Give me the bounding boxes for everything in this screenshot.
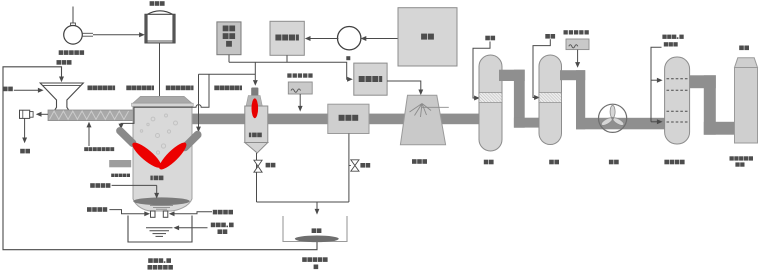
flame of torch 1 (red) xyxy=(129,139,164,171)
denitrifier column (脱硝) xyxy=(539,55,562,145)
node: chamber 1 label (1燃室) xyxy=(150,176,152,181)
valve nozzle right under chamber 1 xyxy=(163,211,168,217)
melting chamber 1 (1燃室) vessel body xyxy=(133,106,192,212)
node: plasma torch 4 label (等离子体炬4) xyxy=(214,86,219,91)
chiller 1 (冷水机1) xyxy=(270,21,304,55)
node: liquid level symbol in collection box xyxy=(146,228,173,237)
wire: power drop to torch 4 xyxy=(253,62,258,86)
melting chamber 1 lid xyxy=(132,96,194,106)
fan (风机) xyxy=(599,104,627,132)
node: feed port label (进料口) xyxy=(57,60,62,65)
node: rotating plate label (旋转炉盘) with arrow xyxy=(90,183,159,198)
temperature sensor 3 (温度传感器) xyxy=(564,30,590,49)
flame of torch 4 (red) xyxy=(252,98,259,118)
wire: sensor 3 arrow into duct xyxy=(575,50,580,68)
wire: power to torch 3 (right torch) xyxy=(196,74,201,132)
dust collection bin xyxy=(283,216,347,242)
chamber 2 shoulder xyxy=(246,96,262,107)
water tank (水箱) xyxy=(398,8,457,66)
wire: sensor 2 arrow into duct xyxy=(298,94,303,112)
chiller 2 (冷水机2) xyxy=(354,63,387,95)
plasma power supply box (等离子电源) xyxy=(217,22,241,55)
duct: denitrifier top outlet to fan xyxy=(560,70,666,129)
node: motor label (电机) with arrow xyxy=(20,118,30,153)
air compressor (空气压缩机) xyxy=(59,7,84,55)
temperature sensor mount on chamber 1 (温度传感器) xyxy=(109,160,131,177)
rotating furnace plate (dark ellipse) inside chamber 1 xyxy=(133,197,189,209)
adsorption column (吸附杂质) xyxy=(665,57,690,144)
node: bubbles inside chamber 1 xyxy=(140,114,177,154)
wire: chiller 1 down to power bus xyxy=(286,55,288,62)
node: collection box caption (玻璃液、合金液收集箱) xyxy=(148,258,173,269)
node: funnel label (漏斗) with arrow xyxy=(3,87,44,93)
plasma torch 3 (right, on chamber 1) xyxy=(185,135,198,148)
wire: chiller1 to chiller2 water line xyxy=(229,62,353,82)
duct: flue gas duct chamber1 -> chamber2 -> dust collector -> quench tower -> desulfurizer xyxy=(190,114,482,125)
valve on dust collector drop line (阀门) xyxy=(349,160,359,171)
duct: desulfurizer top outlet to denitrifier inlet xyxy=(499,70,540,128)
node: denitrifier label (脱硝) xyxy=(549,160,554,165)
wire: lime/activated-carbon feed (生石灰、活性炭等) with label xyxy=(651,35,684,125)
plasma torch 4 (on chamber 2) xyxy=(251,88,258,101)
valve under chamber 2 (阀门) xyxy=(254,160,262,172)
flame of torch 3 (red) xyxy=(156,139,190,172)
node: adsorption column label (吸附杂质) xyxy=(664,160,669,165)
gas storage tank (储气罐) xyxy=(145,1,175,43)
node: glass/alloy liquid label (玻璃液，合金液) with arrow xyxy=(173,223,233,234)
wire: chiller 2 to quench tower spray xyxy=(387,81,423,95)
wire: dust recycle loop from dust bin back to feed funnel xyxy=(3,67,317,250)
plasma torch 1 (left, on chamber 1) xyxy=(120,131,133,143)
temperature sensor 2 (温度传感器) xyxy=(287,73,312,94)
valve nozzle left under chamber 1 xyxy=(151,211,156,217)
node: clean flue gas outlet caption (排放出干净烟气) xyxy=(730,156,754,166)
wire: pump to chiller 1 arrow xyxy=(305,36,339,41)
dust collector (除尘器) xyxy=(328,104,369,133)
wire: alkali feed (碱液) with label xyxy=(473,36,495,101)
node: valve label (阀门) xyxy=(266,163,271,168)
wire: gas line from tank down to chamber 1 lid xyxy=(159,43,161,97)
node: plasma torch 1 label (等离子体炬1) xyxy=(88,86,93,91)
water pump circle xyxy=(338,27,361,50)
wire: water tank to pump arrow xyxy=(361,36,398,41)
feed funnel (漏斗) xyxy=(40,83,83,110)
motor (电机) xyxy=(20,110,34,118)
chimney stack (烟囱) xyxy=(735,46,758,144)
wire: dust collector drop line xyxy=(348,134,350,203)
node: pump label (泵) xyxy=(346,56,350,60)
glass/alloy melt collection box xyxy=(128,216,192,243)
screw feeder (螺旋减速进料器) xyxy=(48,110,134,121)
wire: power supply down to bus xyxy=(228,55,230,63)
node: screw feeder label with arrow xyxy=(84,122,114,151)
wire: compressed air pipe to gas tank xyxy=(82,32,145,37)
node: dust bin caption (灰尘收集装置) xyxy=(302,257,327,269)
node: high-temp valve label left (高温阀门) with arrow xyxy=(87,207,150,216)
node: plasma torch 2 label (等离子体炬2) xyxy=(126,86,131,91)
node: quench tower label (急冷塔) xyxy=(412,159,417,164)
wire: chamber 2 outlet down to dust line xyxy=(256,153,258,202)
wire: power to torch 1 (left torch), hops over torch-3 wire xyxy=(119,74,210,129)
desulfurizer column (脱硫) xyxy=(479,55,502,151)
node: plasma torch 3 label (等离子体炬3) xyxy=(166,86,171,91)
wire: feeder to motor arrow xyxy=(36,112,48,117)
wire: urea feed (尿素) with label xyxy=(533,34,555,100)
node: dust label (灰尘) xyxy=(312,228,317,233)
wire: dust merge line to dust bin xyxy=(257,202,349,215)
node: high-temp valve label right (高温阀门) with arrow xyxy=(169,210,233,216)
duct: adsorption column outlet to chimney xyxy=(690,75,735,134)
node: desulfurizer label (脱硫) xyxy=(484,160,489,165)
node: chamber 2 label (2燃室) xyxy=(249,133,251,138)
node: valve label (阀门) on dust collector line xyxy=(360,163,365,168)
quench tower (急冷塔) xyxy=(400,95,448,145)
dust pile (dark ellipse) xyxy=(295,236,339,243)
node: fan label (风机) xyxy=(609,160,614,165)
combustion chamber 2 (2燃室) body xyxy=(245,106,268,153)
wire: power bus xyxy=(199,73,256,75)
